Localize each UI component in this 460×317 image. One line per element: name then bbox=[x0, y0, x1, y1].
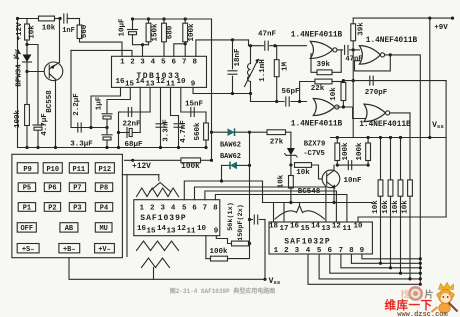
capacitor 10uF electrolytic bbox=[128, 30, 138, 35]
svg-text:100k: 100k bbox=[356, 142, 364, 161]
pin numbers 1-8 SAF1039P bbox=[140, 205, 219, 213]
wire pin17 stub bbox=[283, 203, 285, 223]
svg-text:16: 16 bbox=[137, 225, 147, 233]
node collector on bus bbox=[54, 146, 57, 149]
node 68uF left bbox=[117, 131, 120, 134]
wire keypad link left bbox=[126, 175, 128, 257]
node diode junction row2 bbox=[248, 164, 251, 167]
wire 39k node down to rail bbox=[352, 41, 354, 138]
pin numbers 18-10 SAF1032P bbox=[269, 223, 363, 234]
resistor 39k (pullup) bbox=[351, 18, 356, 41]
wire pin 8 to 47nF line bbox=[196, 40, 249, 56]
wire 18nF bottom bbox=[232, 76, 234, 93]
wire collector down bbox=[55, 79, 57, 147]
capacitor 3.3uF electrolytic bbox=[102, 135, 112, 140]
wire gate1 output bbox=[337, 49, 343, 51]
capacitor 150pF bbox=[254, 215, 257, 224]
capacitor 56pF bbox=[286, 97, 289, 106]
svg-text:6: 6 bbox=[192, 205, 197, 213]
keypad button P1 bbox=[18, 203, 35, 213]
svg-text:11: 11 bbox=[186, 228, 196, 236]
svg-text:8: 8 bbox=[192, 59, 197, 67]
svg-text:3.3µF: 3.3µF bbox=[70, 141, 93, 149]
keypad button +S- bbox=[17, 244, 39, 254]
wire 22nF line bbox=[119, 111, 151, 113]
node 100k bottom bbox=[184, 42, 187, 45]
wire pullup rail bbox=[331, 137, 447, 139]
svg-text:P5: P5 bbox=[23, 185, 31, 193]
resistor 10k column 1 bbox=[378, 138, 383, 264]
keyboard matrix chevrons bottom bbox=[137, 241, 179, 268]
resistor 56k bbox=[232, 241, 250, 246]
node 560k on bus bbox=[204, 146, 207, 149]
wire 22nF left leg bbox=[118, 112, 120, 148]
keypad outer box bbox=[12, 154, 123, 257]
svg-text:12: 12 bbox=[332, 223, 342, 231]
svg-text:2: 2 bbox=[130, 59, 135, 67]
svg-text:150pF(2x): 150pF(2x) bbox=[237, 204, 245, 241]
wire SAF1039P pin6 line bbox=[195, 187, 326, 222]
wire 56pF line bbox=[251, 101, 285, 103]
node gate3 input bbox=[352, 48, 355, 51]
resistor 10k horizontal (top) bbox=[39, 16, 62, 21]
keypad button P10 bbox=[43, 163, 62, 174]
capacitor 47nF (coupling) bbox=[345, 45, 348, 54]
svg-text:39k: 39k bbox=[358, 22, 366, 36]
node pin5/diode junction bbox=[220, 179, 223, 182]
transistor Q2 BC548 bbox=[322, 170, 340, 189]
resistor 100k (pin10) bbox=[206, 256, 228, 261]
svg-text:15: 15 bbox=[125, 81, 135, 89]
svg-text:9: 9 bbox=[214, 228, 219, 236]
wire tank to 56pF line bbox=[250, 94, 252, 102]
keypad button P7 bbox=[69, 183, 85, 193]
svg-text:10k: 10k bbox=[42, 25, 56, 33]
wire 10nF line bbox=[337, 164, 368, 166]
resistor 39k (feedback gate1) bbox=[317, 70, 332, 75]
wire keypad common to Vss bbox=[69, 258, 265, 280]
svg-text:+12V: +12V bbox=[132, 163, 151, 171]
svg-text:BAW62: BAW62 bbox=[220, 142, 241, 150]
node column 1 join bbox=[379, 262, 382, 265]
resistor 1M bbox=[274, 46, 279, 102]
node 47nF out bbox=[273, 44, 276, 47]
svg-text:4: 4 bbox=[171, 205, 176, 213]
keypad button MU bbox=[95, 223, 112, 233]
svg-text:+V–: +V– bbox=[98, 246, 111, 254]
svg-text:14: 14 bbox=[157, 225, 167, 233]
wire 1uF to 3.3uF bbox=[106, 119, 108, 134]
svg-text:56k(1x): 56k(1x) bbox=[227, 202, 235, 231]
diode D2 BAW62 bbox=[230, 162, 250, 170]
wire BAW62 row2 bbox=[222, 164, 230, 166]
svg-text:P11: P11 bbox=[73, 166, 86, 174]
svg-text:15: 15 bbox=[146, 228, 156, 236]
svg-text:图2-31-4 SAF1039P 典型应用电路图: 图2-31-4 SAF1039P 典型应用电路图 bbox=[170, 287, 276, 295]
svg-text:P3: P3 bbox=[73, 204, 81, 212]
pin numbers 1-9 SAF1032P bbox=[274, 247, 365, 255]
wire branch to 4.7uF bbox=[27, 45, 38, 125]
svg-text:100k: 100k bbox=[181, 163, 200, 171]
svg-text:10µF: 10µF bbox=[119, 18, 127, 37]
resistor 10k (base) bbox=[295, 163, 312, 168]
wire 56pF to gate2 bbox=[291, 101, 307, 103]
wire Q2 emitter bbox=[333, 188, 335, 203]
resistor 100k (b) bbox=[366, 138, 371, 166]
capacitor 4.7uF electrolytic bbox=[33, 125, 43, 130]
svg-text:1: 1 bbox=[120, 59, 125, 67]
wire pin 15 to 1uF bbox=[107, 87, 130, 112]
wire pin 6 link bbox=[174, 44, 185, 57]
node row end pin6 bbox=[419, 272, 422, 275]
svg-text:560k: 560k bbox=[194, 122, 202, 141]
wire 39k right leg bbox=[332, 50, 341, 72]
node column 4 join bbox=[408, 277, 411, 280]
keypad button P3 bbox=[69, 203, 85, 213]
wire emitter up bbox=[59, 19, 61, 63]
svg-text:10k: 10k bbox=[29, 25, 37, 39]
wire SAF1039P pin7 line bbox=[205, 191, 337, 222]
node +9V tap bbox=[428, 17, 431, 20]
svg-text:3.3nF: 3.3nF bbox=[163, 119, 171, 142]
svg-text:10k: 10k bbox=[330, 87, 338, 101]
node 56k junction bbox=[248, 242, 251, 245]
svg-text:16: 16 bbox=[290, 223, 300, 231]
node row end pin9 bbox=[419, 257, 422, 260]
wire SAF1039P pin8 line bbox=[215, 195, 347, 223]
node Vss bottom bbox=[263, 278, 266, 281]
wire rail to 10uF bbox=[132, 19, 134, 29]
pin numbers 16-9 TDB1033 bbox=[115, 78, 195, 89]
wire gate4 output bbox=[390, 112, 410, 114]
svg-text:11: 11 bbox=[342, 225, 352, 233]
keypad button AB bbox=[60, 223, 78, 233]
svg-text:56pF: 56pF bbox=[281, 88, 300, 96]
svg-text:10k: 10k bbox=[382, 200, 390, 214]
wire 3.3uF to bus bbox=[106, 140, 108, 148]
node 2.2uF junction2 bbox=[105, 126, 108, 129]
svg-text:10k: 10k bbox=[278, 174, 286, 188]
resistor 10k vertical (left) bbox=[25, 19, 30, 41]
node pin3 junction bbox=[141, 43, 144, 46]
watermark stamp circle bbox=[401, 286, 434, 301]
keypad button P2 bbox=[44, 203, 60, 213]
node 680 top bbox=[162, 17, 165, 20]
wire gate3 out to column bbox=[390, 55, 420, 284]
watermark mascot bbox=[432, 283, 458, 314]
wire pin 16 to 2.2uF node bbox=[91, 87, 121, 127]
svg-text:1.4NEF4011B: 1.4NEF4011B bbox=[366, 37, 418, 45]
IC U5 SAF1032P body bbox=[269, 222, 372, 254]
keyboard matrix chevrons top bbox=[137, 183, 179, 197]
gate U2b NAND 1.4NEF4011B bbox=[313, 99, 339, 116]
svg-text:P2: P2 bbox=[48, 204, 56, 212]
svg-text:+12V: +12V bbox=[16, 22, 24, 41]
node 18nF tap bbox=[231, 38, 234, 41]
wire pin 13 stub bbox=[149, 87, 151, 112]
capacitor 1nF bbox=[64, 14, 67, 23]
node col1 top bbox=[379, 136, 382, 139]
node 10k top bbox=[342, 79, 345, 82]
keypad button P12 bbox=[95, 163, 114, 174]
wire SAF1032P pin8 row bbox=[351, 254, 420, 263]
resistor 22k (feedback gate2) bbox=[315, 79, 332, 84]
resistor 10k column 3 bbox=[398, 138, 403, 274]
svg-text:Vss: Vss bbox=[432, 121, 444, 130]
svg-text:7: 7 bbox=[182, 59, 187, 67]
svg-text:100k: 100k bbox=[14, 110, 22, 129]
wire 10uF to pin3 node bbox=[133, 35, 149, 45]
resistor 100k (pin7) bbox=[183, 19, 188, 56]
svg-text:BC558: BC558 bbox=[46, 90, 54, 113]
wire long vertical from top rail bbox=[211, 19, 213, 160]
svg-text:P12: P12 bbox=[99, 166, 112, 174]
keypad button P6 bbox=[44, 183, 60, 193]
node A junction bbox=[25, 43, 28, 46]
pin numbers 16-9 SAF1039P bbox=[137, 225, 219, 236]
wire 10k to junction bbox=[26, 40, 28, 45]
inductor L1 1.1mH variable bbox=[245, 46, 260, 94]
wire pin 2 line bbox=[71, 50, 132, 56]
resistor 10k (to emitter line) bbox=[289, 165, 294, 203]
wire SAF1032P pin5 row bbox=[319, 254, 420, 279]
resistor 100k (a) bbox=[335, 138, 340, 166]
wire SAF1032P pin4 row bbox=[308, 254, 420, 284]
wire pin 11 to 4.7nF bbox=[171, 87, 179, 147]
svg-text:找: 找 bbox=[401, 289, 410, 301]
wire row2 down bbox=[221, 165, 223, 181]
transistor Q1 BC558 bbox=[44, 62, 63, 81]
svg-text:12: 12 bbox=[177, 225, 187, 233]
svg-text:15nF: 15nF bbox=[185, 101, 204, 109]
wire pin 9 to tank bbox=[193, 87, 251, 93]
node +12V top-left terminal bbox=[16, 17, 19, 20]
wire pin 3 stub bbox=[142, 45, 144, 57]
keyboard matrix brace above SAF1032P bbox=[275, 203, 325, 220]
wire SAF1032P pin7 row bbox=[341, 254, 420, 268]
keypad button P5 bbox=[18, 183, 35, 193]
node left leg on bus bbox=[117, 146, 120, 149]
wire BAW62 row1 bbox=[212, 131, 228, 133]
wire 10k to base bbox=[312, 165, 323, 179]
wire jog to 47nF bbox=[249, 40, 264, 46]
svg-text:BPW34: BPW34 bbox=[16, 64, 24, 87]
svg-text:16: 16 bbox=[115, 78, 125, 86]
node 10nF left bbox=[336, 164, 339, 167]
wire Q2 collector bbox=[333, 165, 335, 170]
svg-text:SAF1039P: SAF1039P bbox=[140, 214, 186, 223]
photodiode BPW34 bbox=[14, 45, 32, 72]
wire Vss drop bbox=[264, 220, 266, 280]
wire chevron to bottom rail bbox=[153, 268, 155, 280]
keypad button P9 bbox=[17, 163, 38, 174]
wire +9V to pullup rail bbox=[429, 18, 431, 137]
node 100k-a top bbox=[336, 136, 339, 139]
capacitor 1uF electrolytic bbox=[102, 114, 112, 119]
wire top-left rail bbox=[18, 18, 39, 20]
svg-text:27k: 27k bbox=[270, 139, 284, 147]
wire 2.2uF line bbox=[71, 127, 107, 129]
wire 47nF2 to gate3 bbox=[350, 49, 360, 51]
resistor 150k bbox=[146, 19, 151, 45]
wire 22k left leg bbox=[300, 82, 315, 102]
gate U3a NAND 1.4NEF4011B bbox=[359, 46, 384, 65]
svg-text:13: 13 bbox=[321, 225, 331, 233]
wire SAF1039P pin5 line bbox=[184, 181, 262, 200]
node +9V end bbox=[451, 17, 454, 20]
svg-text:+9V: +9V bbox=[434, 24, 448, 32]
svg-text:MU: MU bbox=[99, 225, 107, 233]
svg-text:1.1mH: 1.1mH bbox=[259, 59, 267, 82]
svg-text:10: 10 bbox=[176, 78, 186, 86]
keypad button +V- bbox=[95, 244, 115, 254]
node 4.7uF on bus bbox=[36, 146, 39, 149]
node vertical x353 on 270pF line bbox=[352, 79, 355, 82]
gate U2a NAND 1.4NEF4011B bbox=[310, 41, 337, 58]
svg-text:1: 1 bbox=[140, 205, 145, 213]
svg-text:1.4NEF4011B: 1.4NEF4011B bbox=[291, 120, 343, 128]
IC U1 TDB1033 body bbox=[112, 56, 207, 87]
svg-text:10: 10 bbox=[353, 223, 363, 231]
wire SAF1039P pin9 out bbox=[216, 236, 231, 244]
wire Vss column bbox=[445, 81, 447, 217]
svg-text:2: 2 bbox=[150, 205, 155, 213]
wire pin 10 to 15nF bbox=[181, 87, 206, 112]
wire Vss staircase to pin10 bbox=[358, 217, 446, 222]
node 100k on bus bbox=[25, 146, 28, 149]
svg-text:14: 14 bbox=[135, 78, 145, 86]
svg-text:SAF1032P: SAF1032P bbox=[284, 238, 330, 247]
svg-text:+B–: +B– bbox=[63, 246, 76, 254]
node diode junction row1 bbox=[248, 131, 251, 134]
resistor 10k (interstage) bbox=[341, 81, 346, 107]
capacitor 18nF bbox=[228, 71, 237, 74]
wire 560 to pin 1 bbox=[80, 39, 123, 57]
capacitor 68uF electrolytic bbox=[127, 128, 132, 138]
resistor 10k column 2 bbox=[388, 138, 393, 268]
svg-text:片: 片 bbox=[425, 289, 434, 301]
svg-text:3: 3 bbox=[160, 205, 165, 213]
svg-text:BZX79: BZX79 bbox=[304, 141, 326, 149]
svg-text:1: 1 bbox=[274, 247, 279, 255]
svg-text:1.4NEF4011B: 1.4NEF4011B bbox=[359, 121, 411, 129]
node col3 top bbox=[399, 136, 402, 139]
resistor 100k (+12V feed) bbox=[125, 158, 212, 163]
svg-text:15: 15 bbox=[300, 225, 310, 233]
keypad button +B- bbox=[59, 244, 80, 254]
svg-text:Vss: Vss bbox=[269, 277, 281, 286]
svg-text:10nF: 10nF bbox=[343, 177, 362, 185]
resistor 560 bbox=[77, 19, 82, 39]
wire keypad link right bbox=[158, 175, 160, 181]
gate U3b NAND 1.4NEF4011B bbox=[364, 104, 390, 122]
node 10uF top bbox=[131, 17, 134, 20]
svg-text:8: 8 bbox=[213, 205, 218, 213]
svg-text:18nF: 18nF bbox=[234, 48, 242, 67]
node base junction bbox=[25, 70, 28, 73]
wire gate3 output bbox=[385, 54, 391, 56]
svg-text:P7: P7 bbox=[73, 185, 81, 193]
node +12V terminal bbox=[131, 159, 134, 162]
node 1M bottom bbox=[275, 100, 278, 103]
svg-text:P10: P10 bbox=[46, 166, 59, 174]
svg-text:P9: P9 bbox=[23, 166, 31, 174]
pin numbers 1-8 TDB1033 bbox=[120, 59, 197, 67]
svg-text:14: 14 bbox=[311, 223, 321, 231]
node pin12 on bus bbox=[159, 146, 162, 149]
node 22k input bbox=[298, 100, 301, 103]
keypad button P4 bbox=[95, 203, 112, 213]
svg-text:150k: 150k bbox=[152, 23, 160, 42]
wire cap to 560 resistor bbox=[67, 18, 79, 20]
svg-text:2.2µF: 2.2µF bbox=[73, 93, 81, 116]
svg-text:www.dzsc.com: www.dzsc.com bbox=[397, 311, 447, 317]
svg-text:18: 18 bbox=[269, 223, 279, 231]
svg-text:3: 3 bbox=[140, 59, 145, 67]
node row end pin8 bbox=[419, 262, 422, 265]
node 150pF tap bbox=[248, 218, 251, 221]
svg-text:2: 2 bbox=[284, 247, 289, 255]
node row end pin4 bbox=[419, 283, 422, 286]
capacitor 10nF bbox=[348, 161, 351, 170]
svg-text:680: 680 bbox=[167, 25, 175, 39]
wire keypad link top bbox=[122, 174, 158, 176]
wire 150pF line bbox=[250, 219, 253, 221]
svg-text:4: 4 bbox=[151, 59, 156, 67]
resistor 100k vertical (left) bbox=[25, 72, 30, 148]
wire junction to 100k bbox=[228, 244, 250, 259]
capacitor 15nF bbox=[191, 108, 194, 117]
node 100k-b top bbox=[367, 136, 370, 139]
node zener on 202 bbox=[289, 201, 292, 204]
capacitor 47nF bbox=[265, 41, 268, 50]
keypad button P11 bbox=[69, 163, 88, 174]
node junction emitter/cap bbox=[58, 17, 61, 20]
keypad button P8 bbox=[95, 183, 112, 193]
capacitor 4.7nF bbox=[174, 124, 183, 127]
node column 3 join bbox=[399, 272, 402, 275]
svg-text:-C7V5: -C7V5 bbox=[303, 150, 325, 158]
wire 150pF to Vss bbox=[260, 219, 266, 221]
capacitor 22nF bbox=[128, 108, 131, 117]
node interstage bbox=[342, 105, 345, 108]
svg-text:4.7nF: 4.7nF bbox=[180, 120, 188, 143]
svg-text:17: 17 bbox=[279, 225, 288, 233]
wire 100k to pin10 bbox=[205, 236, 207, 259]
wire +9V rail bbox=[353, 17, 452, 19]
wire 22k right leg bbox=[332, 81, 343, 83]
resistor 680 bbox=[162, 19, 167, 56]
wire ground bus left bbox=[18, 147, 207, 149]
svg-text:10: 10 bbox=[197, 225, 207, 233]
svg-text:47nF: 47nF bbox=[258, 31, 277, 39]
svg-text:P4: P4 bbox=[100, 204, 108, 212]
svg-text:P8: P8 bbox=[100, 185, 108, 193]
node 2.2uF junction1 bbox=[89, 126, 92, 129]
wire SAF1032P pin9 row bbox=[362, 254, 420, 259]
node 10nF right bbox=[367, 164, 370, 167]
wire pin5 ext down bbox=[262, 181, 264, 203]
svg-text:12: 12 bbox=[156, 78, 166, 86]
svg-text:10k: 10k bbox=[392, 200, 400, 214]
node feed join bbox=[210, 159, 213, 162]
wire SAF1032P pin6 row bbox=[330, 254, 421, 273]
svg-text:1µF: 1µF bbox=[96, 96, 104, 110]
svg-text:10k: 10k bbox=[296, 169, 310, 177]
node BAW62 row1 tap bbox=[210, 131, 213, 134]
capacitor 270pF bbox=[370, 76, 373, 85]
IC U4 SAF1039P body bbox=[134, 200, 220, 236]
